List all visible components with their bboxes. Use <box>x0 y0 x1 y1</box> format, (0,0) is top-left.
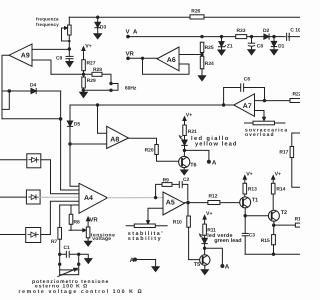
wire box2 to A4 faint <box>40 196 79 198</box>
svg-text:frequenza: frequenza <box>36 16 59 21</box>
svg-text:V+: V+ <box>186 113 193 119</box>
node Z1 top <box>220 35 223 38</box>
node C1 left <box>58 253 61 256</box>
wire C2 to A5 output <box>183 184 188 200</box>
resistor R33 <box>236 35 247 39</box>
wire A8 output to R20 <box>129 138 157 144</box>
svg-text:R25: R25 <box>205 45 214 51</box>
ground under C9 <box>66 62 73 67</box>
op-amp A6 <box>157 47 179 71</box>
wire R9 to C2 <box>172 183 179 185</box>
ground under T6 <box>181 170 188 175</box>
node C8 top <box>250 35 253 38</box>
node T6 collector LED junction <box>183 149 186 152</box>
node junction at 118.9 <box>59 117 63 121</box>
wire R10 to T5 base <box>189 227 200 259</box>
wire A5 inverting input from stabilita wiper <box>148 208 163 222</box>
wire A9 output branch to D4 node <box>2 91 9 109</box>
svg-text:green lead: green lead <box>214 238 241 244</box>
svg-text:R9: R9 <box>163 177 170 183</box>
diode D2 <box>264 34 269 39</box>
wire T5 emitter <box>204 265 206 270</box>
svg-text:stability: stability <box>128 236 162 242</box>
LED giallo diode <box>182 140 187 150</box>
wire R27 to node <box>83 71 85 77</box>
capacitor C9 <box>66 49 73 61</box>
capacitor C3 <box>242 216 248 255</box>
wire esterno left vertical <box>59 264 61 270</box>
svg-text:R24: R24 <box>205 61 214 67</box>
ground under R24 <box>198 76 205 81</box>
resistor R28 <box>92 72 102 76</box>
rectifier box 3 <box>26 228 41 243</box>
wire A4 output faint <box>108 197 164 199</box>
node VA terminal <box>126 35 130 39</box>
svg-text:R20: R20 <box>145 148 154 154</box>
svg-text:R15: R15 <box>261 238 270 244</box>
svg-text:D5: D5 <box>74 122 81 128</box>
potentiometer frequenza body <box>68 25 72 35</box>
svg-text:VR: VR <box>89 216 98 223</box>
wire R20 to T6 base <box>157 155 179 162</box>
svg-text:R14: R14 <box>276 187 285 193</box>
node R25 top <box>200 35 203 38</box>
svg-text:R7: R7 <box>51 239 58 245</box>
node A5 output <box>186 201 190 205</box>
op-amp A5 <box>163 192 185 215</box>
wire T2 emitter <box>273 221 275 225</box>
node A6 output junction <box>200 53 203 56</box>
VR arrow at tensione pot <box>87 217 90 227</box>
wire tensione wiper line <box>69 229 83 231</box>
wire top rail to R26 <box>69 16 300 18</box>
svg-text:A: A <box>225 264 230 271</box>
V+ arrow feeding R14 <box>272 176 275 184</box>
svg-text:V A: V A <box>126 28 139 35</box>
node A7 output <box>263 99 266 102</box>
wire pot top <box>68 17 70 25</box>
ground at A terminal <box>152 267 159 272</box>
wire R25 to R24 <box>201 53 203 57</box>
wire C1 left stub <box>60 253 66 255</box>
resistor R15 <box>272 235 276 245</box>
svg-text:V+: V+ <box>246 171 253 177</box>
potentiometer stabilita body <box>134 224 155 228</box>
node R27 R29 junction <box>82 73 85 76</box>
svg-text:R16: R16 <box>295 217 300 223</box>
wire T5 collector <box>204 248 206 255</box>
svg-text:T5: T5 <box>194 262 200 268</box>
ground under T5 <box>201 270 208 275</box>
node T1 emitter <box>244 214 247 217</box>
wire box1 to A4 input 3 <box>41 160 79 194</box>
svg-text:A4: A4 <box>84 195 93 202</box>
node T2 emitter <box>272 224 275 227</box>
svg-text:yellow lead: yellow lead <box>195 141 237 148</box>
wire A9 inverting input <box>32 60 51 74</box>
ground under tensione pot <box>85 241 92 246</box>
svg-text:A: A <box>130 257 135 264</box>
wire T5 node to A terminal <box>205 248 223 266</box>
wire rail down to A8 input <box>98 105 107 133</box>
wire A6 output <box>179 54 202 56</box>
LED verde diode <box>202 238 207 248</box>
svg-text:C3: C3 <box>249 232 256 238</box>
wire R13 to T1 <box>244 194 246 197</box>
wire horizontal y118.8 <box>2 118 61 120</box>
node C9 top <box>68 47 71 50</box>
wire R11 to LED verde <box>204 235 206 238</box>
resistor R21 <box>183 125 187 136</box>
wire to A8 inverting input <box>70 143 107 145</box>
wire 60Hz lower <box>83 89 111 91</box>
svg-text:D2: D2 <box>263 28 270 34</box>
diode D4 <box>31 88 36 93</box>
svg-text:C2: C2 <box>183 177 190 183</box>
ground under D3 <box>94 34 102 39</box>
svg-text:R27: R27 <box>87 60 96 66</box>
node D5 chain A8 branch <box>68 142 71 145</box>
wire from D4 down to A4 input 2 <box>61 91 79 190</box>
node esterno right <box>77 263 80 266</box>
node pot bottom <box>68 40 71 43</box>
node VR terminal <box>126 57 130 61</box>
resistor R29 <box>82 77 86 88</box>
wire T2 emitter to R16 <box>274 224 300 226</box>
wire rail corner down to D5 <box>69 105 71 121</box>
wire tensione pot bottom <box>87 238 89 241</box>
svg-text:60Hz: 60Hz <box>125 85 137 91</box>
op-amp A9 <box>9 44 32 66</box>
op-amp A7 <box>234 94 255 117</box>
V+ arrow feeding R27 <box>82 47 85 60</box>
wire D5 to A4 input 1 <box>70 126 79 186</box>
ground under C8 <box>248 50 255 55</box>
svg-text:overload: overload <box>245 132 275 138</box>
ground under D1 <box>270 50 277 55</box>
svg-text:C6: C6 <box>244 77 251 83</box>
resistor R17 <box>290 147 294 158</box>
V+ arrow feeding R21 <box>183 117 186 125</box>
potentiometer sovraccarica body <box>253 121 275 125</box>
resistor R9 <box>162 183 172 187</box>
node VR branch <box>141 57 144 60</box>
svg-text:D3: D3 <box>100 24 107 30</box>
wire T6 emitter to ground <box>183 168 185 171</box>
svg-text:A: A <box>212 160 217 167</box>
rectifier box 2 <box>26 190 40 204</box>
zener Z1 <box>219 37 226 50</box>
svg-text:D1: D1 <box>278 43 285 49</box>
diode D5 <box>67 121 72 126</box>
wire R9 left leg <box>156 184 162 197</box>
svg-text:R28: R28 <box>93 67 102 73</box>
potentiometer esterno wiper diagonal <box>58 268 78 276</box>
op-amp A8 <box>107 126 129 148</box>
wire VR to A6 <box>128 57 157 59</box>
wire box2 left to edge <box>0 196 26 198</box>
svg-text:A5: A5 <box>166 200 175 207</box>
svg-text:R10: R10 <box>173 219 182 225</box>
wire box1 left to edge <box>0 159 27 161</box>
svg-text:V+: V+ <box>206 211 213 217</box>
wire R8 to wiper line <box>70 224 72 230</box>
svg-text:A6: A6 <box>167 57 176 64</box>
wire A5 output to T1 base <box>185 202 240 204</box>
node terminal A1 <box>207 160 211 164</box>
wire pot bottom to A9 input node <box>68 35 70 49</box>
V+ arrow feeding R13 <box>243 176 246 184</box>
node D1 top <box>272 35 275 38</box>
svg-text:T6: T6 <box>190 163 196 169</box>
node 60Hz upper <box>109 82 112 85</box>
transistor T5 <box>200 255 210 265</box>
op-amp A4 <box>79 183 108 213</box>
svg-text:R12: R12 <box>209 193 218 199</box>
resistor R16 <box>295 223 303 227</box>
resistor R12 <box>208 201 220 205</box>
ground under R29 <box>80 90 88 97</box>
resistor R20 <box>155 145 159 155</box>
wire R17 bottom to edge <box>292 158 300 188</box>
node D4 left <box>8 89 12 93</box>
svg-text:VR: VR <box>126 50 135 57</box>
wire box3 left to edge <box>0 234 26 236</box>
svg-text:R29: R29 <box>87 78 96 84</box>
rectifier box 1 <box>27 154 41 168</box>
LED giallo arrows <box>179 136 182 139</box>
potentiometer tensione wiper arrow <box>83 229 86 232</box>
60Hz jumper link <box>113 84 119 91</box>
wire node to A terminal <box>184 150 209 161</box>
svg-text:R22: R22 <box>293 92 301 98</box>
resistor R22 <box>290 99 301 103</box>
capacitor C8 <box>248 37 254 50</box>
resistor R26 <box>190 15 204 19</box>
node esterno left <box>58 263 61 266</box>
wire T1 emitter to T2 base <box>245 215 268 217</box>
potentiometer tensione body <box>86 227 90 238</box>
potentiometer frequenza wiper <box>62 27 70 41</box>
svg-text:R17: R17 <box>279 150 288 156</box>
capacitor C1 <box>66 251 69 257</box>
ground under Z1 <box>218 50 225 55</box>
svg-text:A7: A7 <box>243 103 252 110</box>
svg-text:R33: R33 <box>237 28 246 34</box>
wire A9 loop to R28 node and on to 60Hz link <box>51 74 111 83</box>
wire T1 emitter <box>244 208 246 216</box>
resistor R11 <box>203 224 207 235</box>
V+ arrow feeding R11 <box>203 215 206 224</box>
potentiometer esterno body <box>60 270 79 275</box>
wire center rail y105 <box>70 104 234 106</box>
transistor T2 <box>268 210 279 221</box>
wire C1 right to ground <box>70 254 89 258</box>
ground right of C1 <box>85 259 92 264</box>
svg-text:V+: V+ <box>275 171 282 177</box>
wire A7 inverting to pot wiper <box>255 111 265 119</box>
svg-text:R13: R13 <box>248 187 257 193</box>
resistor R25 <box>200 42 204 52</box>
node rail C6 junction <box>222 103 225 106</box>
resistor R24 <box>200 56 204 69</box>
wire box3 to A4 input 5 <box>41 201 79 234</box>
svg-text:C 10: C 10 <box>290 28 300 34</box>
resistor R13 <box>243 183 247 194</box>
node T5 collector <box>203 247 206 250</box>
capacitor C10 <box>286 33 290 40</box>
node D3 junction <box>96 16 99 19</box>
svg-text:frequency: frequency <box>36 22 59 27</box>
wire C6 to A7 output <box>244 88 265 101</box>
potentiometer stabilita wiper arrow <box>147 221 150 224</box>
wire R10 top <box>187 203 189 216</box>
svg-text:T2: T2 <box>281 210 287 216</box>
resistor R7 <box>58 228 62 240</box>
wire sovraccarica pot line <box>245 122 286 124</box>
potentiometer sovraccarica wiper arrow <box>263 117 266 120</box>
wire A9 noninverting input <box>32 48 69 50</box>
wire R17 top from edge <box>292 133 300 147</box>
wire R29 bottom <box>83 88 85 90</box>
diode D3 <box>95 17 101 34</box>
svg-text:C8: C8 <box>257 43 264 49</box>
node terminal A2 <box>220 264 224 268</box>
svg-text:V+: V+ <box>85 44 92 50</box>
transistor T6 <box>179 156 190 167</box>
wire pot esterno right vertical <box>78 254 80 270</box>
wire A7 output to R22 <box>255 100 301 102</box>
wire A4 input 6 R7 R8 <box>60 205 79 214</box>
wire T2 emitter to R15 <box>273 225 275 234</box>
svg-text:T1: T1 <box>252 197 258 203</box>
svg-text:C1: C1 <box>64 245 71 251</box>
node rail to A8 <box>96 103 99 106</box>
svg-text:A9: A9 <box>21 52 30 59</box>
wire R21 to LED <box>184 136 186 141</box>
resistor R10 <box>187 216 191 227</box>
svg-text:A8: A8 <box>110 136 119 143</box>
wire R15 bottom <box>273 245 275 254</box>
wire VA rail <box>128 36 300 38</box>
svg-text:R8: R8 <box>74 219 81 225</box>
svg-text:Z1: Z1 <box>227 43 233 49</box>
capacitor C2 <box>179 181 182 187</box>
node R29 ground junction <box>82 89 85 92</box>
wire stabilita pot line <box>126 225 167 227</box>
LED verde arrows <box>199 234 202 237</box>
wire D4 line <box>2 90 61 92</box>
svg-text:R21: R21 <box>188 129 197 135</box>
svg-text:R26: R26 <box>191 9 200 15</box>
wire bottom rail <box>245 253 300 255</box>
wire A9 output down left side <box>2 55 9 119</box>
svg-text:voltage: voltage <box>92 236 111 242</box>
node C1 right <box>77 253 80 256</box>
wire R7 top <box>59 205 61 228</box>
wire R7 bottom to C1 node <box>59 239 61 264</box>
node R15 rail <box>272 253 275 256</box>
wire C6 feedback <box>224 88 241 106</box>
resistor R14 <box>271 183 275 194</box>
resistor R8 <box>69 214 73 224</box>
capacitor C6 <box>241 84 244 92</box>
resistor R27 <box>82 60 86 71</box>
svg-text:C9: C9 <box>56 56 63 62</box>
node terminal A3 <box>133 258 137 262</box>
svg-text:D4: D4 <box>30 83 37 89</box>
node R9 junction <box>154 196 157 199</box>
wire R14 to T2 <box>272 194 274 210</box>
wire T6 collector <box>183 150 185 156</box>
wire A terminal to ground <box>135 260 156 267</box>
wire A6 inverting loop <box>143 58 190 74</box>
transistor T1 <box>240 197 251 208</box>
node 60Hz lower <box>109 89 112 92</box>
diode D1 <box>271 37 276 50</box>
svg-text:remote voltage control 100 K Ω: remote voltage control 100 K Ω <box>19 289 144 295</box>
wire R24 bottom <box>201 69 203 76</box>
